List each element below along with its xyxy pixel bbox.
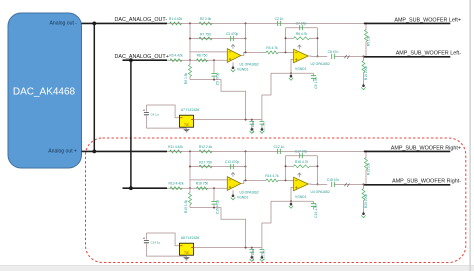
node fb2-right — [317, 37, 319, 39]
op-amp U3 OPA1662 — [227, 177, 241, 191]
power V+ stage1 — [231, 172, 235, 176]
power VGND stage1 — [232, 62, 234, 65]
svg-text:TLE: TLE — [184, 124, 189, 127]
node out-minus — [363, 55, 365, 57]
svg-text:R8 750: R8 750 — [197, 54, 208, 58]
wire feedback row stage1 — [190, 166, 246, 168]
capacitor C13 470p — [231, 164, 234, 169]
svg-text:C19 1.5n: C19 1.5n — [314, 204, 318, 218]
resistor R11 4.42k — [170, 150, 182, 153]
svg-text:R18 750: R18 750 — [196, 182, 209, 186]
node stage2-out — [317, 55, 319, 57]
power VGND cap a — [251, 255, 253, 258]
node stage1-out — [245, 179, 247, 181]
wire net AMP_SUB_WOOFER minus (thick) — [364, 56, 451, 58]
node rowA-fb1 — [189, 22, 191, 24]
capacitor C9 1.5n — [291, 72, 314, 74]
node C5-bottom — [213, 207, 215, 209]
power VGND R10 — [363, 84, 365, 87]
capacitor C21 10u — [261, 248, 263, 250]
capacitor C2 1n — [278, 21, 281, 26]
svg-text:R10 100k: R10 100k — [364, 66, 368, 80]
wire row A (output+ path) — [167, 22, 364, 24]
wire vertical bus out+ — [130, 60, 132, 188]
svg-text:R12 2.4k: R12 2.4k — [199, 145, 213, 149]
power VGND cap a — [251, 127, 253, 130]
node rowB-right — [245, 38, 247, 40]
resistor R2 2.4k — [199, 22, 212, 25]
svg-text:AMP_SUB_WOOFER Right-: AMP_SUB_WOOFER Right- — [392, 179, 461, 185]
wire stage1 output — [241, 180, 262, 183]
svg-text:C5 470p: C5 470p — [216, 73, 220, 86]
svg-text:DAC_ANALOG_OUT+: DAC_ANALOG_OUT+ — [115, 54, 169, 60]
svg-text:U3 OPA1662: U3 OPA1662 — [240, 190, 259, 194]
capacitor C14 1u (polarized) — [145, 233, 147, 240]
svg-text:C2 1n: C2 1n — [275, 17, 284, 21]
resistor R5 10k — [365, 23, 367, 29]
svg-text:R3 4.42k: R3 4.42k — [169, 54, 183, 58]
DAC block DAC_AK4468 — [8, 13, 82, 168]
net tie marks — [345, 183, 350, 187]
svg-text:R5 10k: R5 10k — [366, 35, 370, 46]
wire stage2 feedback right vertical — [317, 28, 319, 57]
node stage2-minus — [285, 51, 287, 53]
wire non-inverting input row — [167, 187, 227, 189]
svg-text:R1 4.42k: R1 4.42k — [169, 17, 183, 21]
node vgnd-loop — [290, 200, 292, 202]
power V+ stage1 — [231, 44, 235, 48]
wire net DAC_ANALOG_OUT- (thick) — [82, 22, 168, 24]
svg-text:DAC_ANALOG_OUT-: DAC_ANALOG_OUT- — [115, 17, 168, 23]
node fb2-left — [285, 37, 287, 39]
svg-text:VGND1: VGND1 — [237, 196, 249, 200]
wire TLE output row — [194, 119, 262, 121]
capacitor C7 27p — [286, 27, 318, 29]
wire feedback row stage1 — [190, 38, 246, 40]
power VGND R10 — [363, 212, 365, 215]
wire stage2 non-inverting to VGND — [291, 59, 294, 73]
svg-text:C14 1u: C14 1u — [151, 240, 161, 244]
ground — [186, 255, 188, 257]
svg-text:C20 100n: C20 100n — [251, 249, 255, 261]
wire VGND return staircase — [190, 208, 246, 248]
svg-text:R14 4.7k: R14 4.7k — [265, 174, 279, 178]
svg-text:C4 1u: C4 1u — [151, 112, 159, 116]
resistor R9 1.5k — [189, 60, 191, 64]
net tie marks — [345, 55, 350, 59]
svg-text:TLE: TLE — [184, 252, 189, 255]
resistor R16 4.7k — [286, 165, 294, 167]
capacitor C11 10u — [261, 120, 263, 122]
window chrome bottom strip — [0, 266, 474, 271]
node rowA-fb2 — [245, 22, 247, 24]
wire net AMP_SUB_WOOFER plus (thick) — [364, 150, 451, 152]
node plusrow-junction — [189, 59, 191, 61]
wire feedback vertical stage1 — [245, 23, 247, 52]
resistor R19 1.5k — [189, 188, 191, 192]
wire row A (output+ path) — [167, 150, 364, 152]
svg-text:R17 750: R17 750 — [199, 160, 212, 164]
wire stage2 output row — [308, 183, 327, 185]
node rowB-left — [189, 166, 191, 168]
svg-text:R11 4.42k: R11 4.42k — [168, 145, 183, 149]
node C5-bottom — [213, 79, 215, 81]
wire stage1 input vertical — [189, 23, 191, 60]
wire net AMP_SUB_WOOFER minus (thick) — [364, 184, 451, 186]
op-amp U4 OPA1662 — [294, 177, 309, 191]
svg-text:C12 1n: C12 1n — [274, 145, 285, 149]
node C5-top — [213, 187, 215, 189]
capacitor C15 470p — [213, 188, 215, 201]
resistor R15 10k — [365, 151, 367, 157]
svg-text:U7 TLE2426: U7 TLE2426 — [181, 108, 200, 112]
svg-text:R6 4.7k: R6 4.7k — [296, 32, 308, 36]
node vgnd-loop — [290, 72, 292, 74]
svg-text:R2 2.4k: R2 2.4k — [200, 17, 212, 21]
wire VGND rail riser — [262, 201, 291, 247]
wire stage1 input vertical — [189, 151, 191, 188]
resistor R18 750 — [197, 187, 208, 190]
svg-text:U2 OPA1662: U2 OPA1662 — [311, 62, 330, 66]
svg-text:R9 1.5k: R9 1.5k — [184, 72, 188, 84]
svg-text:C17 27p: C17 27p — [295, 150, 308, 154]
wire stage2 non-inverting to VGND — [291, 187, 294, 201]
svg-text:R13 4.42k: R13 4.42k — [168, 182, 183, 186]
wire stage2 output row — [308, 55, 327, 57]
resistor R4 4.7k — [266, 51, 278, 54]
svg-text:VGND1: VGND1 — [237, 68, 249, 72]
capacitor C19 1.5n — [291, 200, 314, 202]
wire feedback vertical stage1 — [245, 151, 247, 180]
svg-text:C9 1.5n: C9 1.5n — [314, 77, 318, 89]
wire stage2 feedback right vertical — [317, 156, 319, 185]
node tle-a — [245, 247, 247, 249]
capacitor C17 27p — [286, 155, 318, 157]
wire to stage2 inverting input — [262, 179, 266, 181]
wire stage1 output — [241, 52, 262, 55]
wire VGND return staircase — [190, 80, 246, 120]
wire TLE input loop — [146, 105, 179, 118]
svg-text:Analog out -: Analog out - — [50, 21, 78, 27]
power VGND stage2 — [290, 202, 292, 205]
node out-minus — [363, 183, 365, 185]
wire to stage2 inverting input — [262, 51, 266, 53]
svg-text:R7 750: R7 750 — [200, 32, 211, 36]
svg-text:AMP_SUB_WOOFER Left-: AMP_SUB_WOOFER Left- — [396, 51, 462, 57]
wire TLE input loop — [146, 233, 179, 246]
node stage1-out — [245, 51, 247, 53]
node rowB-right — [245, 166, 247, 168]
power V+ stage2 — [298, 173, 302, 177]
wire vertical bus out- — [93, 23, 95, 151]
left channel filter block — [143, 17, 450, 134]
resistor R13 4.42k — [170, 187, 182, 190]
svg-text:AMP_SUB_WOOFER Right+: AMP_SUB_WOOFER Right+ — [391, 145, 461, 151]
capacitor C3 470p — [231, 36, 234, 41]
capacitor C8 47u — [332, 54, 335, 59]
svg-text:C7 27p: C7 27p — [296, 22, 307, 26]
svg-text:R16 4.7k: R16 4.7k — [295, 160, 309, 164]
ground — [186, 127, 188, 129]
power VGND cap b — [261, 255, 263, 258]
op-amp U1 OPA1662 — [227, 49, 241, 63]
node R5-top — [365, 22, 367, 24]
red dashed duplicated-channel outline — [86, 138, 466, 263]
node plusrow-junction — [189, 187, 191, 189]
node fb2-left — [285, 165, 287, 167]
power VGND stage1 — [232, 190, 234, 193]
resistor R1 4.42k — [170, 22, 182, 25]
svg-text:R19 1.5k: R19 1.5k — [184, 200, 188, 214]
node tle-b — [251, 119, 253, 121]
capacitor C18 47u — [332, 182, 335, 187]
svg-text:VGND1: VGND1 — [295, 67, 307, 71]
power VGND cap b — [261, 127, 263, 130]
wire stage2 feedback left vertical — [285, 28, 287, 53]
wire right channel plus stub (thick) — [123, 187, 168, 189]
capacitor C20 100n — [251, 248, 253, 250]
node rowA-fb1 — [189, 150, 191, 152]
power VGND stage2 — [290, 74, 292, 77]
wire net AMP_SUB_WOOFER plus (thick) — [364, 22, 451, 24]
svg-text:C13 470p: C13 470p — [225, 160, 239, 164]
resistor R20 100k — [362, 189, 365, 201]
wire net DAC_ANALOG_OUT+ (thick) — [123, 59, 168, 61]
node tle-a — [245, 119, 247, 121]
svg-text:U1 OPA1662: U1 OPA1662 — [240, 62, 259, 66]
svg-text:C3 470p: C3 470p — [226, 32, 239, 36]
power V+ stage2 — [298, 45, 302, 49]
resistor R8 750 — [197, 59, 208, 62]
wire net to right channel input (thick) — [82, 150, 168, 152]
svg-text:VGND1: VGND1 — [295, 195, 307, 199]
wire non-inverting input row — [167, 59, 227, 61]
node tle-b — [251, 247, 253, 249]
resistor R3 4.42k — [170, 59, 182, 62]
resistor R17 750 — [199, 165, 212, 168]
node stage2-minus — [285, 179, 287, 181]
rail splitter U8 TLE2426 — [180, 243, 194, 255]
svg-text:C15 470p: C15 470p — [216, 200, 220, 214]
capacitor C4 1u (polarized) — [145, 105, 147, 112]
wire stage1 inverting input — [190, 179, 227, 181]
node right-plus-junction — [129, 186, 133, 190]
node C5-top — [213, 59, 215, 61]
rail splitter U7 TLE2426 — [180, 115, 194, 127]
wire TLE output row — [194, 247, 262, 249]
wire VGND rail riser — [262, 73, 291, 119]
svg-text:C8 47u: C8 47u — [328, 50, 339, 54]
resistor R14 4.7k — [266, 179, 278, 182]
svg-text:C10 100n: C10 100n — [251, 121, 255, 133]
resistor R10 100k — [362, 61, 365, 73]
svg-text:AMP_SUB_WOOFER Left+: AMP_SUB_WOOFER Left+ — [394, 17, 461, 23]
svg-text:R15 10k: R15 10k — [366, 163, 370, 176]
node out-plus-stub — [129, 58, 133, 62]
node out-plus-junction — [92, 150, 96, 154]
node rowB-left — [189, 38, 191, 40]
right channel filter block (duplicated) — [143, 145, 450, 262]
svg-text:C18 47u: C18 47u — [327, 178, 340, 182]
window chrome right divider — [469, 0, 471, 271]
svg-text:U8 TLE2426: U8 TLE2426 — [181, 236, 200, 240]
svg-text:R20 100k: R20 100k — [364, 194, 368, 208]
node stage2-out — [317, 183, 319, 185]
node out-minus-junction — [92, 22, 96, 26]
wire stage1 inverting input — [190, 51, 227, 53]
node rowA-fb2 — [245, 150, 247, 152]
capacitor C10 100n — [251, 120, 253, 122]
svg-text:DAC_AK4468: DAC_AK4468 — [13, 87, 76, 98]
op-amp U2 OPA1662 — [294, 49, 309, 63]
wire stage2 feedback left vertical — [285, 156, 287, 181]
capacitor C12 1n — [278, 149, 281, 154]
svg-text:R4 4.7k: R4 4.7k — [266, 46, 278, 50]
svg-text:U4 OPA1662: U4 OPA1662 — [311, 190, 330, 194]
resistor R7 750 — [199, 37, 212, 40]
svg-text:Analog out +: Analog out + — [48, 149, 77, 155]
resistor R12 2.4k — [199, 150, 212, 153]
node R5-top — [365, 150, 367, 152]
node fb2-right — [317, 165, 319, 167]
capacitor C5 470p — [213, 60, 215, 73]
resistor R6 4.7k — [286, 37, 294, 39]
